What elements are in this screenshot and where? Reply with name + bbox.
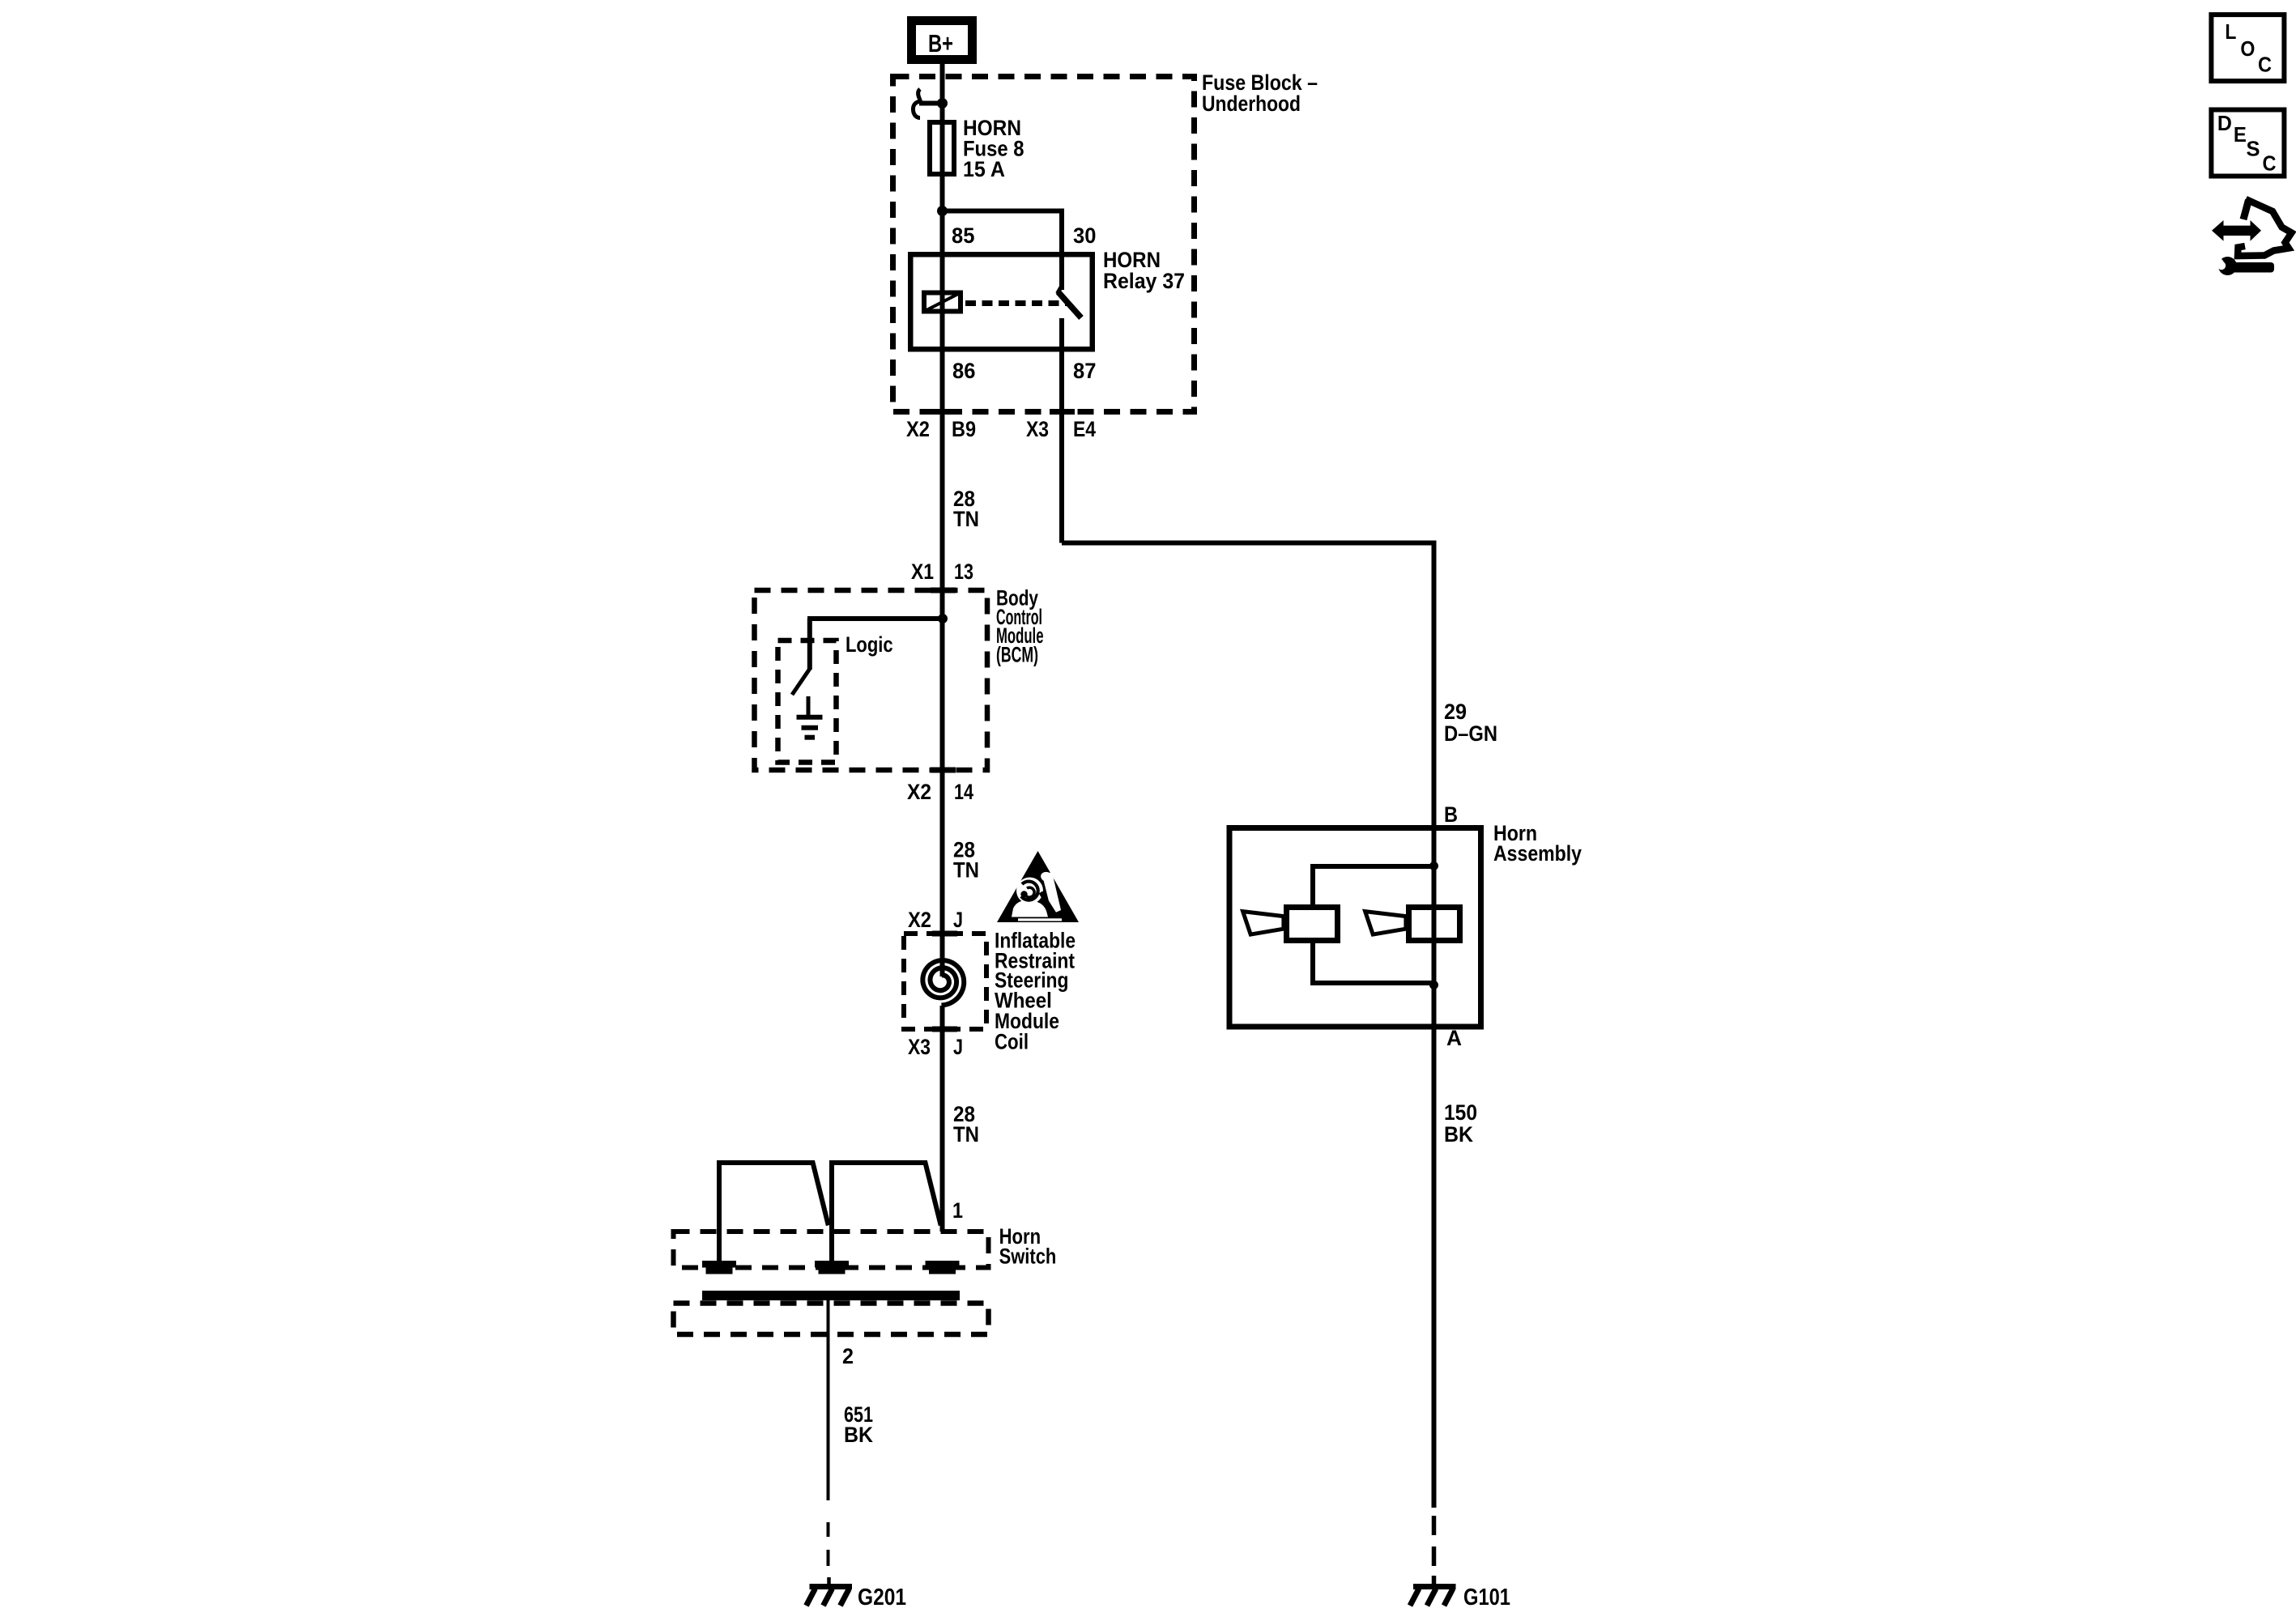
fuse HORN Fuse 8 15A xyxy=(930,122,954,174)
wire: horn loop lower branch xyxy=(1313,943,1434,983)
junction dot A side xyxy=(1429,981,1438,989)
DESC legend box xyxy=(2211,110,2284,177)
label Inflatable Restraint Steering Wheel Module Coil xyxy=(995,928,1076,1053)
connector tick X2-14 xyxy=(931,768,956,773)
relay actuation dashed link xyxy=(965,300,1067,306)
svg-text:X2: X2 xyxy=(907,780,931,804)
svg-text:Assembly: Assembly xyxy=(1493,841,1582,866)
connector label X2 14 xyxy=(907,780,973,804)
svg-text:O: O xyxy=(2240,36,2255,61)
svg-text:TN: TN xyxy=(953,1122,979,1147)
svg-text:J: J xyxy=(953,908,963,932)
svg-text:15 A: 15 A xyxy=(963,157,1005,181)
Logic dashed box xyxy=(778,640,837,763)
junction dot below fuse xyxy=(937,206,948,216)
connector tick X2-J xyxy=(932,931,957,937)
label HORN Relay 37 xyxy=(1103,248,1185,293)
SIR airbag warning triangle xyxy=(997,851,1079,922)
svg-text:85: 85 xyxy=(952,223,974,248)
svg-text:X3: X3 xyxy=(908,1035,931,1059)
bus tap curl at fuse feed xyxy=(913,89,920,118)
svg-text:86: 86 xyxy=(952,359,975,383)
svg-text:150: 150 xyxy=(1444,1100,1477,1125)
svg-text:E: E xyxy=(2234,122,2247,147)
relay switch blade 30-87 xyxy=(1058,286,1082,318)
connector tick X1-13 xyxy=(931,588,956,594)
junction dot B side xyxy=(1429,862,1438,870)
svg-text:14: 14 xyxy=(954,780,973,804)
label Horn Switch xyxy=(999,1224,1057,1269)
connector label X1 13 xyxy=(911,559,973,584)
svg-text:D–GN: D–GN xyxy=(1444,721,1497,746)
relay coil xyxy=(924,293,961,312)
battery feed B+ box xyxy=(912,21,973,60)
horn 2 bell xyxy=(1365,912,1406,935)
svg-text:BK: BK xyxy=(844,1423,873,1447)
svg-text:E4: E4 xyxy=(1073,417,1096,441)
svg-text:J: J xyxy=(953,1035,963,1059)
svg-text:BK: BK xyxy=(1444,1122,1473,1147)
relay K37 outline xyxy=(910,254,1093,349)
wire label 651 BK xyxy=(844,1402,873,1447)
wire: branch to pin 30 xyxy=(943,211,1063,291)
Horn Assembly box xyxy=(1229,828,1481,1027)
fixed contact pad 2 xyxy=(815,1261,849,1268)
svg-text:Switch: Switch xyxy=(999,1244,1057,1269)
svg-text:S: S xyxy=(2247,137,2260,161)
svg-text:X1: X1 xyxy=(911,559,934,584)
wire: horn switch to G201 xyxy=(827,1300,830,1500)
label Fuse Block - Underhood xyxy=(1202,70,1318,116)
wire: relay pin 87 down xyxy=(1059,318,1064,543)
svg-text:2: 2 xyxy=(842,1344,854,1368)
wire: horn assembly A to G101 dashed tail xyxy=(1432,1516,1437,1535)
wire: coil to horn switch xyxy=(940,1006,945,1232)
svg-text:X3: X3 xyxy=(1026,417,1049,441)
horn switch contact staple left xyxy=(719,1163,829,1264)
svg-text:Coil: Coil xyxy=(995,1029,1029,1053)
svg-text:B9: B9 xyxy=(952,417,976,441)
svg-text:(BCM): (BCM) xyxy=(996,642,1038,666)
ground symbol inside BCM xyxy=(797,696,823,738)
wire label 29 D-GN xyxy=(1444,700,1497,746)
svg-text:29: 29 xyxy=(1444,700,1467,724)
wire label 28 TN xyxy=(953,1102,979,1147)
svg-text:TN: TN xyxy=(953,858,979,883)
svg-text:A: A xyxy=(1446,1026,1462,1050)
junction dot on main wire xyxy=(938,614,948,623)
BCM dashed outline xyxy=(755,590,988,770)
svg-text:30: 30 xyxy=(1073,223,1096,248)
ground G101 xyxy=(1410,1587,1456,1606)
LOC legend box xyxy=(2211,15,2284,81)
svg-text:Underhood: Underhood xyxy=(1202,91,1301,116)
svg-text:X2: X2 xyxy=(908,908,931,932)
horn 2 body xyxy=(1409,908,1460,941)
svg-text:13: 13 xyxy=(954,559,973,584)
svg-text:X2: X2 xyxy=(906,417,930,441)
horn pad lower dashed box xyxy=(674,1304,989,1335)
horn switch contact staple right xyxy=(832,1163,941,1264)
service/repair hand icon xyxy=(2212,199,2292,275)
connector tick X3-J xyxy=(932,1027,957,1032)
connector label X3 J (coil bottom) xyxy=(908,1035,963,1059)
svg-text:87: 87 xyxy=(1073,359,1096,383)
svg-text:G101: G101 xyxy=(1463,1585,1510,1610)
wire: B+ to steering wheel coil (vertical main run x=1163.5) xyxy=(940,60,945,976)
svg-text:L: L xyxy=(2225,19,2236,44)
ground G201 xyxy=(807,1587,853,1606)
wire label 28 TN xyxy=(953,838,979,883)
horn 1 body xyxy=(1287,908,1338,941)
junction dot at tap xyxy=(937,98,948,108)
movable contact bar xyxy=(702,1291,960,1300)
wire: pin 87 to horn assembly B xyxy=(1062,543,1434,1508)
svg-text:B: B xyxy=(1444,802,1458,827)
wire: horn loop upper branch xyxy=(1313,866,1434,904)
fixed contact pad 1 xyxy=(702,1261,736,1268)
svg-text:1: 1 xyxy=(952,1198,963,1223)
wire: BCM internal feed to logic switch xyxy=(807,616,943,621)
steering wheel module coil dashed box xyxy=(904,934,986,1029)
svg-text:D: D xyxy=(2217,111,2232,135)
wire label 28 TN xyxy=(953,487,979,531)
Fuse Block - Underhood dashed outline xyxy=(893,77,1195,412)
svg-text:G201: G201 xyxy=(858,1585,906,1610)
horn 1 bell xyxy=(1243,912,1284,935)
svg-text:Logic: Logic xyxy=(846,632,893,657)
connector tick X3-E4 xyxy=(1050,409,1075,415)
svg-text:C: C xyxy=(2258,53,2272,77)
logic driver switch xyxy=(792,619,810,695)
fixed contact pad 3 xyxy=(926,1261,960,1268)
svg-text:TN: TN xyxy=(953,507,979,531)
connector label X3 E4 xyxy=(1026,417,1096,441)
Horn Switch dashed box xyxy=(674,1232,989,1268)
svg-text:Relay 37: Relay 37 xyxy=(1103,269,1185,293)
wire label 150 BK xyxy=(1444,1100,1477,1147)
label Body Control Module (BCM) xyxy=(996,586,1044,667)
label Horn Assembly xyxy=(1493,821,1582,866)
svg-text:B+: B+ xyxy=(928,29,953,57)
connector label X2 J (coil top) xyxy=(908,908,963,932)
svg-text:C: C xyxy=(2263,151,2277,175)
connector label X2 B9 xyxy=(906,417,976,441)
connector tick X2-B9 xyxy=(930,409,955,415)
clockspring spiral xyxy=(922,960,964,1005)
